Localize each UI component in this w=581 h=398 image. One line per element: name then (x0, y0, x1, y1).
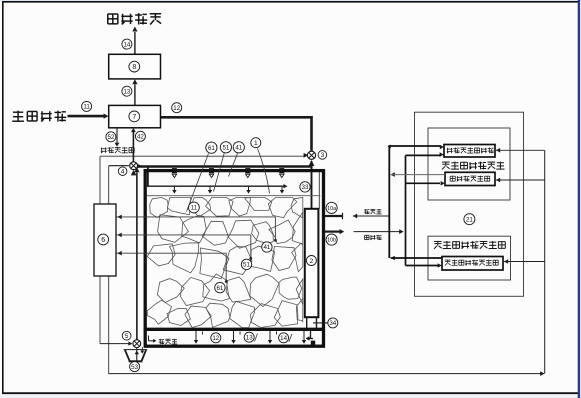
svg-text:33: 33 (302, 184, 309, 191)
svg-text:10b: 10b (327, 238, 336, 244)
svg-text:4: 4 (121, 169, 125, 176)
label 11 (82, 101, 92, 111)
wire boxB right loop (496, 178, 500, 183)
wire rail-A top corner (99, 156, 101, 204)
text 新能源热水系统 (442, 161, 450, 163)
funnel drain (136, 348, 138, 361)
label 61 top (206, 142, 217, 153)
rock fill of tank (150, 198, 168, 218)
label 2 (306, 256, 316, 266)
wire v405 (405, 155, 407, 265)
label 13 trough (244, 332, 254, 342)
label 11 packing (189, 202, 200, 213)
text 再生能源热水系统 (434, 240, 442, 242)
leader 61 (187, 154, 209, 212)
text 供水管 (364, 209, 367, 211)
box 8 fan (109, 54, 161, 79)
wire 8 to 7 (134, 85, 136, 106)
text 集水坑 sump (159, 339, 162, 341)
wire rail-A bottom (99, 276, 101, 344)
valve V5 (133, 340, 141, 348)
temperature sensor lines (116, 216, 275, 218)
label 41 top (233, 142, 244, 153)
outer system rect (415, 112, 524, 296)
svg-text:13: 13 (246, 334, 253, 341)
label 5 (122, 331, 131, 340)
svg-text:51: 51 (222, 145, 229, 152)
pipe 10a stub (325, 215, 343, 217)
bottom long wire (109, 373, 541, 375)
column 2 water jacket (305, 209, 319, 317)
label 41 sensor (262, 242, 272, 252)
box B heat pump system (445, 172, 495, 185)
label 14 trough (279, 333, 289, 343)
wire exhaust up (134, 32, 136, 55)
svg-text:5: 5 (125, 333, 129, 340)
wire to valve5 (100, 343, 130, 345)
label 6 (98, 234, 109, 245)
svg-text:51: 51 (243, 262, 250, 269)
box 7 air unit (109, 105, 161, 127)
label 13 (122, 86, 132, 96)
label 51 top (220, 142, 231, 153)
svg-text:14: 14 (123, 41, 130, 48)
wire boxC lower feed (406, 265, 439, 267)
svg-text:61: 61 (216, 285, 223, 292)
valve V3 (307, 151, 315, 159)
label 12 (172, 103, 182, 113)
svg-text:42: 42 (137, 134, 144, 141)
svg-text:7: 7 (132, 114, 136, 121)
trough downflow arrows (195, 331, 197, 340)
label 1 top (251, 138, 261, 148)
lower inner rect (428, 236, 511, 280)
wire boxA upper feed (388, 145, 440, 147)
leader 41 (229, 153, 238, 176)
supply line 供水管 (353, 214, 357, 219)
wire 7 outlet to valve3 (161, 116, 313, 119)
svg-text:41: 41 (235, 145, 242, 152)
text 排入大气 (exhaust to atmosphere) (108, 13, 118, 15)
rock bed top line (147, 195, 321, 197)
label 7 (129, 111, 140, 122)
valve V4 (109, 165, 129, 167)
wire spray downcomer (147, 167, 149, 187)
label 34 (328, 318, 338, 328)
wire recirculation riser (136, 173, 138, 344)
svg-text:21: 21 (466, 216, 473, 223)
svg-text:34: 34 (329, 320, 336, 327)
wire control line y156 (100, 155, 306, 157)
tank inner wall line (318, 172, 320, 209)
wire distribution pipe (138, 165, 313, 168)
trough left elbow (148, 336, 150, 341)
svg-text:12: 12 (212, 335, 219, 342)
text 室外空气 (outdoor air) (13, 111, 23, 113)
label 4 (118, 167, 127, 176)
box C wastewater system (442, 257, 503, 271)
wire boxB upper out (391, 172, 395, 177)
wire riser 42 into box7 (132, 132, 134, 162)
svg-text:52: 52 (107, 134, 114, 141)
wire v389 (388, 146, 390, 258)
wire drain 52 (116, 128, 118, 143)
border frame (2, 1, 578, 3)
leader 1 (258, 149, 270, 194)
port 34 stub (313, 322, 328, 324)
label 52 (106, 132, 116, 142)
wire boxB lower feed (406, 182, 441, 184)
tank shell (145, 171, 323, 347)
svg-text:8: 8 (132, 64, 136, 71)
label 33 port (300, 182, 310, 192)
svg-text:3: 3 (321, 152, 325, 159)
return line 回水管 (354, 231, 400, 233)
svg-text:41: 41 (263, 244, 270, 251)
box A solar system (444, 145, 495, 158)
wire valve3 to column (311, 161, 313, 209)
box 6 controller (94, 204, 116, 276)
wire boxA lower feed (406, 154, 441, 156)
label 10b (326, 234, 337, 245)
leader 51 (214, 153, 225, 191)
svg-text:14: 14 (280, 335, 287, 342)
svg-text:13: 13 (123, 88, 130, 95)
label 61 sensor (215, 282, 225, 292)
column bottom stubs (306, 317, 308, 328)
label 42 (135, 131, 145, 141)
svg-text:10a: 10a (327, 206, 336, 212)
spray header with down arrows (147, 185, 284, 187)
label 12 trough (211, 333, 221, 343)
wire rail-B (108, 166, 110, 204)
label 8 (129, 61, 140, 72)
label 10a (326, 202, 337, 213)
label 21 (464, 214, 475, 225)
wire boxC upper (391, 256, 395, 261)
svg-text:53: 53 (131, 364, 138, 371)
upper inner rect (428, 128, 510, 200)
svg-text:1: 1 (254, 140, 258, 147)
label 53 (130, 362, 140, 372)
svg-text:6: 6 (101, 237, 105, 244)
wire outdoor air inlet (68, 115, 105, 118)
label 51 sensor (241, 259, 251, 269)
svg-text:12: 12 (173, 105, 180, 112)
svg-text:11: 11 (191, 205, 198, 212)
text 回水管 (365, 234, 369, 236)
air nozzles on distribution pipe (172, 168, 177, 173)
wire boxC right loop (504, 259, 508, 264)
svg-text:11: 11 (83, 104, 90, 111)
text 引至污水池 (to sewage pool) (101, 148, 107, 150)
svg-text:2: 2 (310, 258, 314, 265)
label 3 (318, 151, 327, 160)
column outlet elbow (310, 331, 312, 339)
svg-text:61: 61 (208, 145, 215, 152)
pipe 10b stub (325, 231, 340, 233)
label 14 (122, 39, 132, 49)
wire boxA right loop (496, 148, 500, 153)
